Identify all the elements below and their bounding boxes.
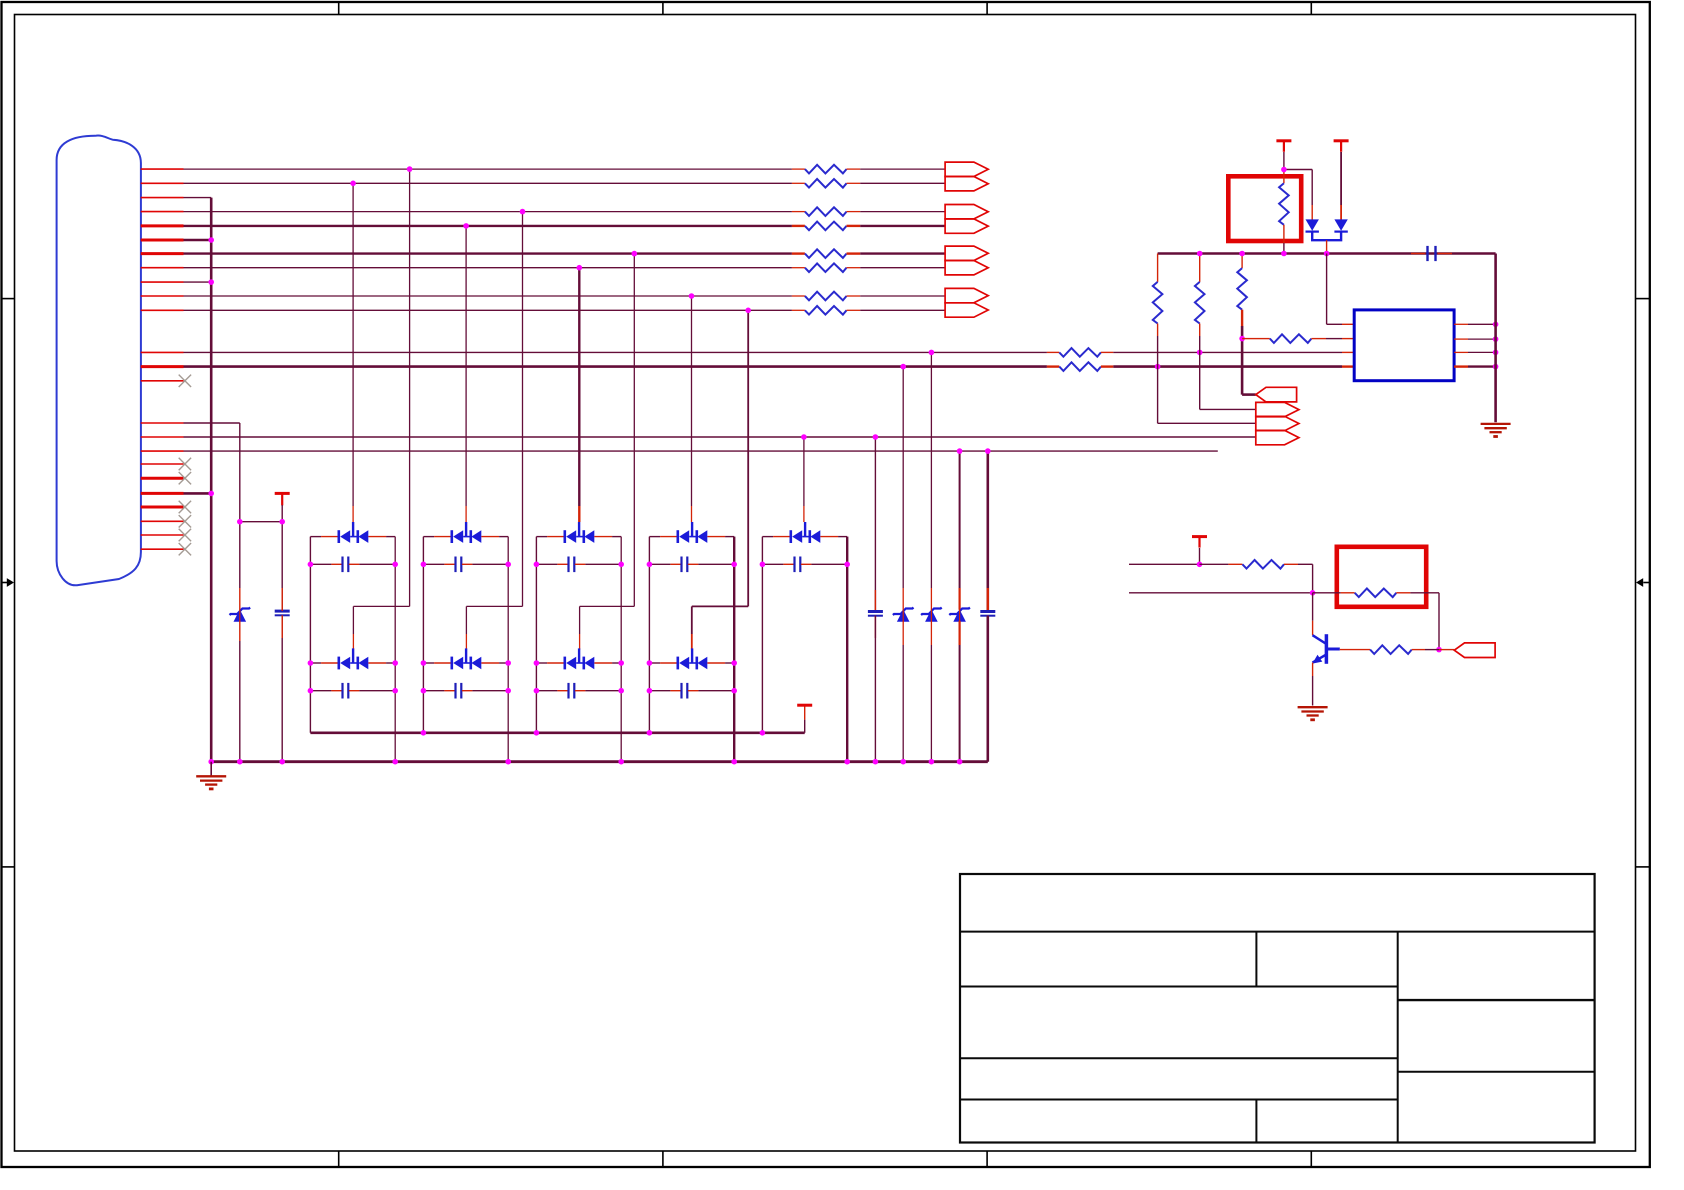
resistor R13 [1237,268,1247,310]
wire [1157,336,1159,423]
junction [900,364,906,370]
wire [184,225,792,227]
resistor R18 [1370,645,1412,654]
lead [352,506,354,522]
wire [762,563,783,565]
power bar VCC4 [797,704,812,707]
junction [1493,336,1499,342]
wire [281,505,283,611]
wire [423,563,444,565]
pin stub [141,281,184,283]
wire [860,225,945,227]
port [945,288,988,302]
lead [281,588,283,611]
wire [692,605,748,607]
wire [578,268,580,506]
lead [958,588,960,610]
wire [310,690,331,692]
lead [847,295,861,297]
junction [731,688,737,694]
lead [1340,649,1370,651]
wire [1200,408,1256,410]
wire [1113,351,1342,353]
junction [392,688,398,694]
lead [1312,621,1314,636]
lead [481,662,499,664]
wire [1312,593,1314,621]
junction [577,265,583,271]
resistor R15 [1270,334,1312,343]
diode pair D2 [450,530,453,543]
wire [1129,592,1313,594]
pin stub [141,197,184,199]
port [1256,387,1297,402]
lead [792,295,805,297]
lead [239,588,241,610]
diode D10 [1306,219,1319,230]
resistor R2 [805,179,847,188]
lead [874,590,876,612]
wire [507,537,509,762]
junction [534,730,540,736]
wire [649,662,660,664]
pin stub [141,365,184,368]
port [945,219,988,233]
lead [803,506,805,522]
lead [1101,365,1113,367]
wire [860,182,945,184]
wire [612,536,621,538]
transistor Q1 [1313,635,1327,644]
junction [308,688,314,694]
lead [579,634,581,650]
wire [860,267,945,269]
pin stub (NC) [141,463,184,465]
lead [465,634,467,650]
no-connect [179,529,191,541]
junction [279,519,285,525]
wire [725,662,734,664]
connector J1 [57,136,141,586]
power bar VCC5 [1192,535,1207,538]
wire [184,168,792,170]
lead [958,621,960,645]
junction [421,660,427,666]
lead [801,563,812,565]
wire [959,451,961,588]
wire [184,309,792,311]
wire [240,521,282,523]
port [1454,643,1495,658]
wire [239,641,241,762]
wire [1340,152,1342,205]
wire [184,492,212,495]
power bar VCC2 [1334,139,1349,142]
lead [987,616,989,640]
lead [1283,225,1285,243]
wire [184,211,792,213]
resistor R14 [1279,183,1289,225]
diode pair D9 [676,657,679,670]
lead [281,615,283,638]
pin stub [141,168,184,170]
junction [957,759,963,765]
junction [844,562,850,568]
wire [649,536,660,538]
junction [745,308,751,314]
lead [1256,338,1270,340]
lead [847,225,861,227]
junction [1310,590,1316,596]
pin stub [141,295,184,297]
lead [1342,365,1354,367]
ground rail [211,760,988,763]
wire [184,351,1047,353]
wire [811,563,847,565]
wire [239,423,241,588]
wire [585,563,621,565]
wire [1311,170,1313,206]
port [945,246,988,260]
lead [792,225,805,227]
pin stub [141,252,184,255]
junction [237,519,243,525]
junction [208,279,214,285]
wire [499,662,508,664]
wire [1468,338,1496,340]
wire [1468,365,1496,367]
capacitor C10 [275,610,290,613]
wire [184,182,792,184]
junction [647,562,653,568]
wire [838,536,847,538]
wire [1283,243,1285,254]
wire [1200,563,1229,565]
lead [368,536,386,538]
capacitor C3 [567,557,569,573]
pin stub [141,436,184,438]
lead [847,182,861,184]
lead [1228,563,1242,565]
lead [670,563,681,565]
lead [847,252,861,254]
lead [660,662,678,664]
no-connect [179,375,191,387]
capacitor C4 [680,557,682,573]
highlight box [1337,547,1426,607]
junction [647,688,653,694]
junction [1239,336,1245,342]
wire [1298,563,1313,565]
lead [847,211,861,213]
lead [1312,663,1314,676]
lead [352,634,354,650]
wire [465,606,467,634]
wire [612,662,621,664]
wire [1327,323,1342,325]
wire [1284,169,1312,171]
wire [1199,548,1201,564]
wire [1425,649,1439,651]
wire [860,211,945,213]
no-connect [179,515,191,527]
wire [860,295,945,297]
wire [580,605,635,607]
wire [874,437,876,612]
lead [792,252,805,254]
junction [1239,251,1245,257]
lead [368,662,386,664]
wire [352,606,354,634]
junction [760,562,766,568]
capacitor C5 [793,557,795,573]
junction [350,181,356,187]
junction [1493,364,1499,370]
junction [279,759,285,765]
capacitor C7 [454,683,456,699]
junction [844,759,850,765]
wire [1242,393,1256,396]
capacitor C1 [341,557,343,573]
highlight box [1228,176,1301,241]
lead [930,621,932,645]
junction [1493,350,1499,356]
lead [707,662,725,664]
lead [1454,365,1468,367]
lead [349,563,360,565]
no-connect [179,501,191,513]
wire [184,436,1256,438]
lead [1340,205,1342,220]
resistor R4 [805,222,847,231]
junction [1155,364,1161,370]
lead [707,536,725,538]
wire [466,605,522,607]
lead [444,690,455,692]
port [945,205,988,219]
lead [1157,324,1159,337]
lead [1439,649,1454,651]
lead [321,536,339,538]
junction [618,562,624,568]
wire [359,690,395,692]
lead [1454,323,1468,325]
wire [281,615,283,761]
wire [1468,351,1496,353]
resistor R10 [1059,362,1101,371]
wire [409,169,411,606]
resistor R16 [1242,560,1284,569]
wire [762,536,773,538]
diode pair D6 [337,657,340,670]
capacitor C11 [868,610,883,613]
lead [444,563,455,565]
lead [331,563,342,565]
junction [689,293,695,299]
wire [184,422,240,424]
lead [1283,170,1285,184]
lead [902,621,904,645]
pin stub (NC) [141,548,184,550]
junction [505,660,511,666]
capacitor C2 [454,557,456,573]
zener D13 [897,609,910,621]
lead [1342,351,1354,353]
resistor R7 [805,292,847,301]
wire [1113,365,1342,368]
junction [407,166,413,172]
wire [465,226,467,506]
lead [1396,592,1410,594]
wire [803,437,805,506]
junction [421,562,427,568]
wire [499,536,508,538]
zener D15 [953,609,966,621]
zener D12 [234,609,247,621]
wire [386,536,395,538]
pin stub (NC) [141,520,184,522]
lead [1157,254,1159,282]
lead [481,536,499,538]
junction [1324,251,1330,257]
junction [929,350,935,356]
lead [773,536,791,538]
junction [647,730,653,736]
lead [1342,323,1354,325]
lead [434,536,452,538]
resistor R11 [1153,282,1163,324]
wire [585,690,621,692]
diode pair D1 [337,530,340,543]
lead [1311,338,1326,340]
lead [594,662,612,664]
junction [534,688,540,694]
resistor R8 [805,306,847,315]
junction [392,660,398,666]
wire [959,645,961,762]
wire [1312,676,1314,706]
lead [930,588,932,610]
wire [184,365,1047,368]
lead [847,309,861,311]
lead [688,690,699,692]
lead [462,690,473,692]
junction [632,251,638,257]
wire [579,606,581,634]
pin stub [141,450,184,452]
wire [874,616,876,762]
junction [421,730,427,736]
wire [986,451,989,611]
wire [649,690,670,692]
wire [620,537,622,762]
lead [1454,338,1468,340]
wire [1129,563,1200,565]
pin stub [141,224,184,227]
junction [900,759,906,765]
wire [184,281,212,283]
lead [575,690,586,692]
wire [535,537,537,733]
lead [1047,351,1059,353]
resistor R1 [805,165,847,174]
pin stub [141,422,184,424]
lead [465,506,467,522]
lead [847,168,861,170]
wire [698,563,734,565]
pin stub [141,211,184,213]
lead [547,662,565,664]
wire [1410,592,1439,594]
wire [184,295,792,297]
wire [353,605,409,607]
junction [1197,350,1203,356]
pin stub [141,351,184,353]
lead [783,563,794,565]
lead [691,506,693,522]
lead [792,168,805,170]
lead [1412,649,1425,651]
lead [1101,351,1113,353]
wire [352,183,354,506]
lead [688,563,699,565]
junction [1493,322,1499,328]
lead [792,211,805,213]
wire [210,198,213,762]
port [945,162,988,176]
pin stub (NC) [141,534,184,536]
title block [960,874,1595,1143]
power bar VCC3 [275,492,290,495]
lead [1241,254,1243,269]
pin stub [141,309,184,311]
wire [1326,254,1328,325]
capacitor C12 [980,610,995,613]
IC U1 [1354,310,1454,381]
wire [423,690,444,692]
junction [520,209,526,215]
resistor R17 [1355,589,1397,598]
wire [986,616,989,762]
pin stub [141,182,184,184]
junction [308,562,314,568]
wire [394,537,396,762]
junction [873,759,879,765]
capacitor C9 [680,683,682,699]
junction [1197,562,1203,568]
lead [847,267,861,269]
wire [1494,254,1497,423]
lead [349,690,360,692]
resistor R5 [805,249,847,258]
wire [1312,232,1341,240]
junction [801,434,807,440]
wire [804,720,806,733]
diode pair D8 [563,657,566,670]
pin stub (NC) [141,477,184,480]
no-connect [179,458,191,470]
junction [1281,251,1287,257]
junction [208,237,214,243]
lead [547,536,565,538]
wire [1199,336,1201,409]
wire [536,563,557,565]
lead [1438,253,1452,255]
junction [731,562,737,568]
lead [594,536,612,538]
lead [902,588,904,610]
lead [804,706,806,720]
